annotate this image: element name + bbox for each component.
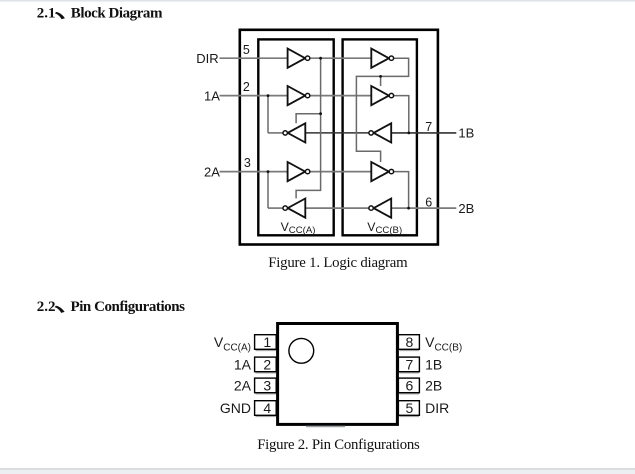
- pin 6 box: [398, 378, 419, 394]
- wire row5 output to 2A node: [268, 207, 283, 209]
- outer chip box: [240, 30, 438, 245]
- svg-text:VCC(A): VCC(A): [214, 334, 251, 353]
- svg-text:2A: 2A: [234, 378, 252, 394]
- pin number 5: [243, 43, 250, 57]
- label 2A pin3: [234, 378, 252, 394]
- pin 3 number: [263, 378, 271, 394]
- buffer A5 2B reverse: [283, 199, 305, 218]
- label VCC(A): [281, 220, 316, 236]
- svg-text:4: 4: [263, 400, 271, 416]
- label 1A pin2: [234, 357, 252, 373]
- wire 1A input: [220, 95, 288, 97]
- wire DIR buffered to box B: [310, 57, 372, 59]
- svg-text:VCC(B): VCC(B): [367, 220, 402, 236]
- label 2B pin6: [425, 378, 442, 394]
- buffer B5 2B reverse: [369, 199, 391, 218]
- pin 7 box: [398, 357, 419, 373]
- svg-text:Block Diagram: Block Diagram: [71, 5, 163, 21]
- pin number 6: [425, 195, 432, 209]
- heading 2.1 Block Diagram: [37, 5, 163, 21]
- svg-text:DIR: DIR: [425, 400, 449, 416]
- wire 1A forward to box B: [310, 95, 372, 97]
- svg-text:1A: 1A: [204, 88, 220, 103]
- pin 4 number: [263, 400, 271, 416]
- svg-text:2: 2: [243, 80, 250, 94]
- pin 5 box: [398, 401, 419, 417]
- svg-text:1A: 1A: [234, 357, 252, 373]
- svg-text:VCC(B): VCC(B): [425, 334, 462, 353]
- junction 2A branch: [267, 170, 270, 173]
- pin1 marker circle: [289, 338, 314, 363]
- junction row3 enable: [319, 112, 322, 115]
- svg-text:2.2: 2.2: [37, 299, 56, 315]
- wire B-side DIR loop to row4 enable: [356, 58, 408, 162]
- label VCC(B) pin8: [425, 334, 462, 353]
- junction B enable: [379, 75, 382, 78]
- label VCC(B): [367, 220, 402, 236]
- pin 4 box: [255, 401, 277, 417]
- wire row5 between buffers: [305, 207, 369, 209]
- pin 1 number: [263, 334, 271, 350]
- svg-text:7: 7: [425, 120, 432, 134]
- junction 1A branch: [267, 94, 270, 97]
- wire row2B enable branch: [380, 76, 382, 86]
- svg-text:Figure 2. Pin Configurations: Figure 2. Pin Configurations: [257, 437, 420, 453]
- pin 6 number: [406, 378, 414, 394]
- buffer B4 2A forward: [371, 162, 393, 181]
- buffer B3 1B reverse: [369, 123, 391, 142]
- label 1A: [204, 88, 220, 103]
- IC package body: [278, 324, 398, 425]
- wire DIR vertical and row5 enable: [296, 58, 321, 198]
- svg-text:1B: 1B: [425, 357, 442, 373]
- svg-text:2B: 2B: [458, 201, 474, 216]
- caption figure 2: [257, 437, 420, 453]
- heading 2.2 Pin Configurations: [37, 299, 185, 315]
- svg-text:1B: 1B: [458, 126, 474, 141]
- wire row2B output to 1B: [394, 96, 409, 133]
- inner box A (left): [258, 39, 333, 235]
- junction 1B: [407, 132, 410, 135]
- svg-text:Figure 1. Logic diagram: Figure 1. Logic diagram: [268, 255, 408, 271]
- inner box B (right): [343, 39, 417, 235]
- label GND pin4: [220, 400, 251, 416]
- pin 2 box: [255, 357, 277, 373]
- label 1B: [458, 126, 474, 141]
- page top edge strip: [0, 0, 635, 2]
- wire 2A input: [220, 171, 288, 173]
- svg-text:3: 3: [244, 156, 251, 170]
- buffer B2 1A forward: [371, 86, 393, 105]
- label 2A: [204, 164, 220, 179]
- pin 7 number: [406, 357, 414, 373]
- package bottom tab: [306, 426, 345, 428]
- svg-text:6: 6: [406, 378, 414, 394]
- buffer A2 1A forward: [288, 86, 310, 105]
- junction 2B: [407, 207, 410, 210]
- caption figure 1: [268, 255, 408, 271]
- svg-text:2B: 2B: [425, 378, 442, 394]
- svg-text:3: 3: [263, 378, 271, 394]
- wire row3 between buffers: [305, 132, 369, 134]
- wire DIR input: [220, 57, 288, 59]
- buffer B1 DIR inverter: [371, 49, 393, 68]
- svg-text:6: 6: [425, 195, 432, 209]
- pin number 7: [425, 120, 432, 134]
- svg-text:7: 7: [406, 357, 414, 373]
- wire row3 enable branch: [296, 114, 321, 124]
- svg-text:5: 5: [406, 400, 414, 416]
- wire 1A to row3 branch: [267, 96, 269, 133]
- pin 2 number: [263, 357, 271, 373]
- junction DIR out: [319, 57, 322, 60]
- buffer A1 DIR inverter: [288, 49, 310, 68]
- label VCC(A) pin1: [214, 334, 251, 353]
- wire 2A to row5 branch: [267, 172, 269, 209]
- svg-text:5: 5: [243, 43, 250, 57]
- label 2B: [458, 201, 474, 216]
- label 1B pin7: [425, 357, 442, 373]
- pin 3 box: [255, 378, 277, 394]
- svg-text:2: 2: [263, 357, 271, 373]
- pin 8 number: [406, 334, 414, 350]
- wire 1B line pin7: [391, 132, 456, 134]
- pin number 2: [243, 80, 250, 94]
- buffer A4 2A forward: [288, 162, 310, 181]
- pin 8 box: [398, 335, 419, 351]
- page bottom band: [0, 468, 635, 474]
- pin 5 number: [406, 400, 414, 416]
- buffer A3 1B reverse: [283, 123, 305, 142]
- wire 2B line pin6: [391, 207, 456, 209]
- svg-text:8: 8: [406, 334, 414, 350]
- svg-text:DIR: DIR: [196, 51, 218, 66]
- svg-text:GND: GND: [220, 400, 251, 416]
- label DIR: [196, 51, 218, 66]
- wire row3 output to 1A node: [268, 132, 283, 134]
- wire row4B output to 2B: [394, 172, 409, 209]
- pin number 3: [244, 156, 251, 170]
- svg-text:Pin Configurations: Pin Configurations: [71, 299, 186, 315]
- pin 1 box: [255, 335, 277, 351]
- wire 2A forward to box B: [310, 171, 372, 173]
- svg-text:2.1: 2.1: [37, 5, 56, 21]
- label DIR pin5: [425, 400, 449, 416]
- svg-text:2A: 2A: [204, 164, 220, 179]
- svg-text:VCC(A): VCC(A): [281, 220, 316, 236]
- svg-text:1: 1: [263, 334, 271, 350]
